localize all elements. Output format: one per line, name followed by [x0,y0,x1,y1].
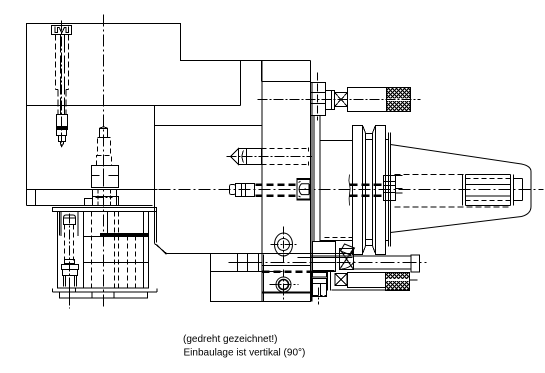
set screw S3 in plate [297,178,310,200]
set screw S1 [227,148,313,166]
vertical centerline [103,15,105,309]
taper flange rib 1 [353,126,363,255]
top knurled knob [387,88,411,112]
lower clamp bearing with roller [340,244,355,270]
lower clamp screw X square [335,274,347,286]
slot hidden line [349,175,350,206]
lower clamp shaft [311,255,420,272]
spindle bottom plate [53,288,158,298]
taper flange rib 2 [376,126,386,255]
top clamp bracket [311,73,335,121]
cap screw in spindle head [61,212,79,309]
lower bearing block [298,242,353,272]
lower knurled knob [386,273,418,291]
flange bolt B2 [276,277,291,292]
top clamp centerline [258,99,421,101]
chamfer corner of body [157,208,167,255]
gearbox wall [311,61,321,302]
top clamp shaft [348,88,387,112]
cap screw M1 top-left [52,21,72,149]
lower bracket boxes [311,272,331,305]
spindle assembly block [58,212,149,288]
housing body outline [27,24,353,254]
stud screw under body [92,127,119,188]
flange bolt B1 [275,233,293,256]
svg-text:(gedreht gezeichnet!): (gedreht gezeichnet!) [183,334,278,345]
spindle neck [321,141,353,241]
lower clamp thread hidden line [262,266,312,272]
svg-text:Einbaulage ist vertikal (90°): Einbaulage ist vertikal (90°) [184,347,306,358]
V-groove [363,126,376,254]
flange plate verticals [262,61,264,302]
taper bore hidden lines [395,175,512,208]
drawbar thread hidden lines [350,185,386,196]
top clamp bearing [335,93,348,107]
bearing boss under body [85,197,119,206]
top mounting plate of spindle head [53,208,157,212]
bottom plate [211,254,311,302]
lower clamp centerline [249,262,427,264]
lower clamp screw body [332,273,410,291]
body bottom face line [27,190,158,208]
main horizontal centerline [159,189,544,191]
annotation text [183,334,305,359]
drive key block [384,176,403,201]
spacer ring [386,133,391,247]
set screw S2 [230,184,298,197]
SK taper cone [391,145,532,233]
thread socket in taper [463,175,523,206]
